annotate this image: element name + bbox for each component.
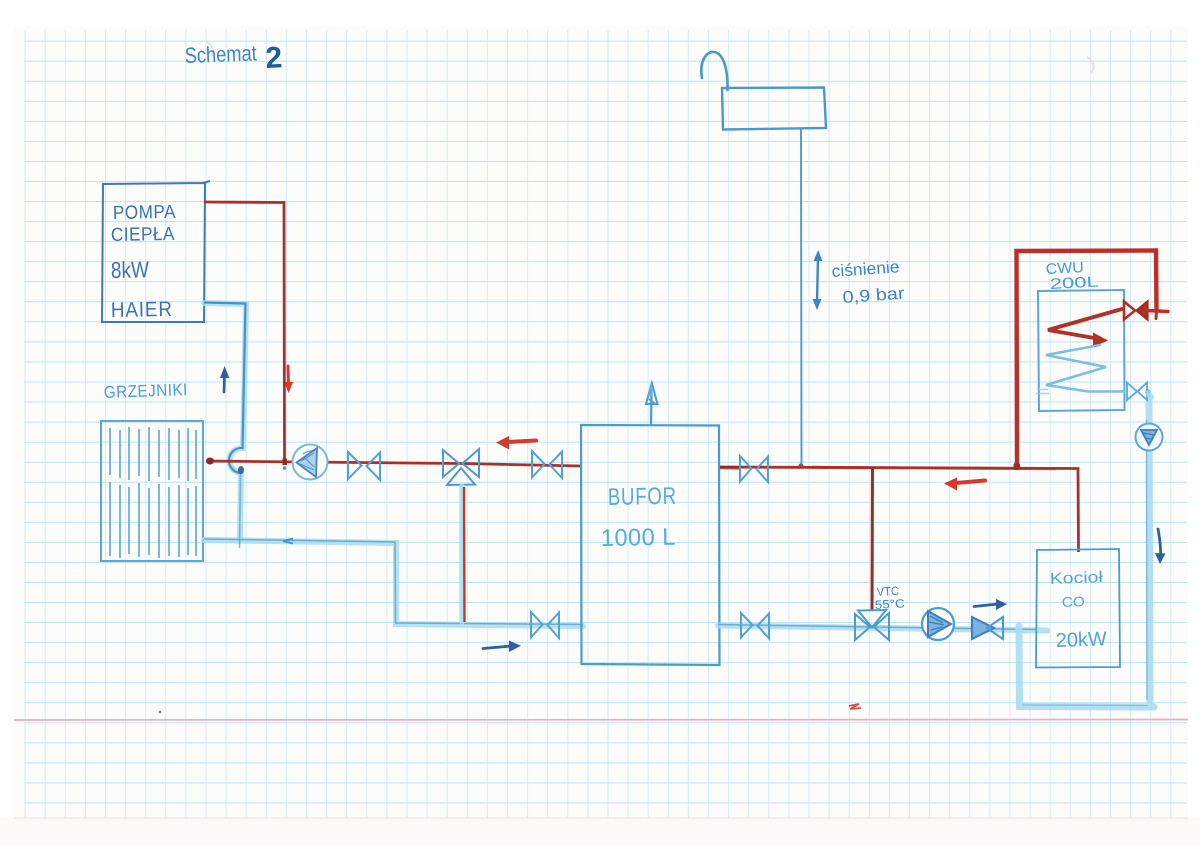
wire: cyan+red drop from three-way valve to bottom line <box>459 486 465 622</box>
svg-text:8kW: 8kW <box>111 256 150 283</box>
valve V1 (bowtie) <box>348 452 380 480</box>
red overdraw segment right <box>928 467 1056 471</box>
valve V4 on red line right of bufor <box>740 456 768 482</box>
expansion tank box <box>722 88 826 130</box>
valve V3 on lower left run <box>531 612 559 638</box>
red coil inside CWU with arrowhead <box>1048 309 1122 347</box>
junction dot expansion pipe / red main <box>798 463 803 468</box>
wire: cyan boiler return U (down, across, up riser) <box>1019 398 1154 707</box>
arrow up (return direction) <box>220 366 229 392</box>
svg-text:Kocioł: Kocioł <box>1050 569 1104 588</box>
small left arrow darkening on return line <box>283 539 293 544</box>
wire: red main from bufor right to boiler corner <box>720 467 1079 552</box>
junction blob radiator supply <box>206 458 214 465</box>
svg-text:Schemat: Schemat <box>184 40 257 67</box>
svg-text:20kW: 20kW <box>1055 628 1107 652</box>
valve V5 right of bufor on cyan <box>741 613 769 639</box>
arrow down blue on riser <box>1155 529 1166 564</box>
pump P1 (circle with triangle) <box>293 445 328 480</box>
red scribble near bottom <box>849 704 861 709</box>
svg-text:POMPA: POMPA <box>113 202 176 224</box>
wire: cyan pipe radiator bottom to bufor (lower left run) <box>204 540 583 626</box>
wire: red main supply line radiator to bufor <box>207 461 580 466</box>
pump P3 boiler loop <box>922 608 954 640</box>
arrow right blue above check valve <box>974 599 1007 610</box>
wire: cyan pipe bufor bottom to boiler <box>718 626 1047 631</box>
wire: red pipe heat pump supply down <box>204 202 285 461</box>
pink margin rule <box>14 719 1188 722</box>
wire: pen edge on bottom run <box>1022 704 1148 707</box>
blue valve at CWU outlet <box>1127 383 1147 401</box>
wire: thick red CWU loop (up from main, across, down) <box>1017 251 1157 467</box>
faint binder arc right <box>1087 57 1094 73</box>
junction blob at hop <box>238 466 244 474</box>
svg-text:HAIER: HAIER <box>111 298 173 322</box>
expansion tank swan-neck hook <box>701 52 727 90</box>
three-way valve TW1 <box>443 449 479 485</box>
arrow down red (supply direction) <box>284 366 293 393</box>
blue coil continuation in CWU <box>1046 345 1124 392</box>
boiler box KOCIOL CO <box>1036 549 1120 668</box>
wire: pen line over bufor-boiler pipe <box>718 625 1036 630</box>
junction blob red tee <box>283 459 288 466</box>
wire: pen line over heat-pump outlet pipe <box>204 303 246 474</box>
bufor vent pipe with up arrow <box>646 383 658 425</box>
svg-text:BUFOR: BUFOR <box>608 483 677 511</box>
svg-text:CO: CO <box>1062 593 1086 610</box>
paper bottom edge shadow <box>14 817 1188 819</box>
svg-text:1000 L: 1000 L <box>601 524 676 552</box>
red overdraw stub at bufor right <box>720 466 741 470</box>
check valve CV1 <box>972 617 1003 639</box>
faint binder arc left <box>205 41 213 56</box>
wire: cyan pipe heat-pump outlet to radiator return tee <box>204 303 246 541</box>
faint pen marks at CWU tank bottom <box>1036 390 1049 394</box>
wire: expansion pipe down to red main <box>800 129 803 467</box>
heat pump box (POMPA CIEPŁA) <box>102 181 210 322</box>
svg-text:2: 2 <box>265 41 283 75</box>
red overdraw segment mid <box>812 466 868 469</box>
svg-text:GRZEJNIKI: GRZEJNIKI <box>103 380 188 402</box>
pressure double arrow <box>813 250 823 310</box>
buffer tank box BUFOR <box>581 425 720 665</box>
wire: red branch down to VTC valve <box>871 467 875 610</box>
arrow left red near boiler <box>944 478 985 491</box>
svg-text:CIEPŁA: CIEPŁA <box>111 224 175 246</box>
radiator box <box>101 421 203 561</box>
svg-text:200L: 200L <box>1049 273 1099 293</box>
three-way valve VTC <box>855 610 889 640</box>
hot water tank box CWU <box>1038 290 1125 411</box>
valve V2 (bowtie) <box>532 451 562 478</box>
wire: pen edge on riser <box>1146 420 1149 700</box>
junction blob CWU drop to red main <box>1014 463 1021 470</box>
stray dot <box>159 711 162 714</box>
red valve on CWU supply <box>1124 302 1168 320</box>
pump P2 on riser (triangle down) <box>1136 424 1163 451</box>
radiator fins <box>110 427 196 558</box>
wire: pen line over radiator return pipe <box>204 539 583 625</box>
wire: cyan connector valve to riser <box>1148 393 1151 397</box>
arrow left red above line <box>496 436 536 450</box>
arrow right blue (flow to bufor) <box>483 641 521 653</box>
